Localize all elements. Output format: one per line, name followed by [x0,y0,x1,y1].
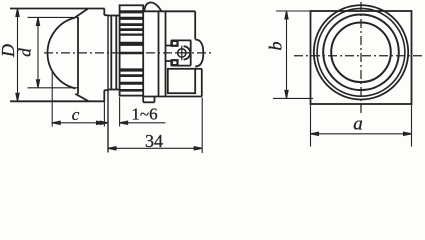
svg-text:d: d [16,48,35,57]
svg-text:a: a [353,114,363,135]
svg-text:34: 34 [145,131,163,151]
svg-text:b: b [266,42,286,51]
svg-text:1~6: 1~6 [131,105,157,124]
svg-text:c: c [72,105,80,124]
